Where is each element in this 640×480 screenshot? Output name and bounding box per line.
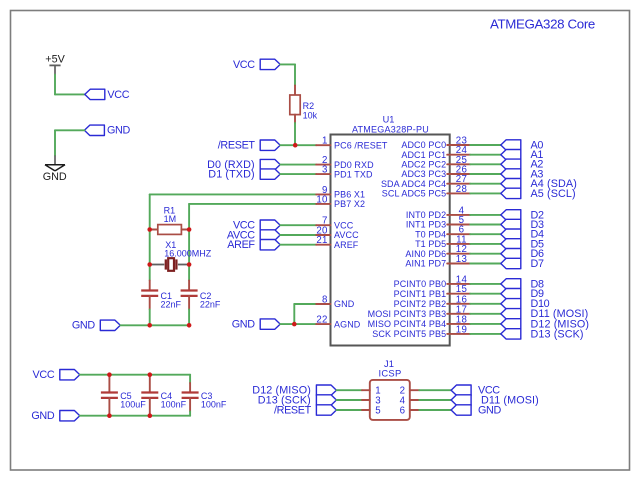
wire (55, 129, 84, 131)
global label A4 (SDA) (501, 179, 521, 189)
wire (470, 283, 501, 285)
svg-text:100nF: 100nF (161, 399, 187, 409)
global label VCC (ICSP) (451, 385, 471, 395)
U1 pin 15 PCINT1 PB1 (394, 284, 471, 299)
wire (419, 389, 451, 391)
global label VCC (U1 power) (260, 220, 280, 230)
svg-text:AVCC: AVCC (334, 230, 359, 240)
resistor R2 (290, 85, 300, 123)
J1 pin 5 (362, 405, 381, 416)
U1 pin 1 PC6 /RESET (316, 136, 388, 151)
wire (55, 93, 85, 95)
global label GND (ICSP) (451, 405, 471, 415)
svg-text:/RESET: /RESET (218, 140, 256, 152)
global label D11 (MOSI) (501, 309, 521, 319)
global label D6 (501, 249, 521, 259)
wire (470, 323, 501, 325)
junction C1 bottom (147, 323, 152, 328)
svg-text:PB7 X2: PB7 X2 (334, 199, 365, 209)
svg-text:22: 22 (316, 315, 327, 326)
svg-text:D7: D7 (531, 258, 544, 270)
U1 pin 18 MISO PCINT4 PB4 (368, 314, 471, 329)
wire crystal ground rail (120, 324, 189, 326)
U1 pin 23 ADC0 PC0 (401, 136, 470, 151)
svg-text:U1: U1 (383, 114, 395, 124)
global label D13 (SCK) (ICSP) (316, 395, 336, 405)
global label D13 (SCK) (501, 329, 521, 339)
svg-text:GND: GND (72, 320, 95, 332)
junction C5 bottom (107, 413, 112, 418)
wire (54, 75, 56, 95)
U1 pin 10 PB7 X2 (316, 194, 365, 209)
wire (54, 130, 56, 155)
J1 pin 4 (400, 395, 420, 406)
U1 pin 4 INT0 PD2 (406, 205, 470, 220)
junction C4 top (148, 372, 153, 377)
svg-text:13: 13 (456, 254, 467, 265)
svg-text:AREF: AREF (227, 239, 255, 251)
global label GND (U1 ground) (260, 319, 280, 329)
svg-text:ICSP: ICSP (378, 368, 401, 379)
wire (419, 399, 451, 401)
junction reset node (293, 143, 298, 148)
U1 pin 21 AREF (316, 235, 359, 250)
global label D12 (MISO) (501, 319, 521, 329)
global label A1 (501, 150, 521, 160)
junction X1 right (187, 262, 192, 267)
global label D4 (501, 229, 521, 239)
svg-text:INT0 PD2: INT0 PD2 (406, 210, 446, 220)
wire VCC rail (80, 374, 190, 376)
global label A5 (SCL) (501, 188, 521, 198)
svg-text:A5 (SCL): A5 (SCL) (531, 188, 576, 200)
U1 pin 24 ADC1 PC1 (401, 145, 470, 160)
svg-text:PB6 X1: PB6 X1 (334, 190, 365, 200)
wire GND riser (293, 304, 295, 324)
capacitor C1 (149, 280, 151, 290)
capacitor C5 (108, 375, 110, 393)
wire (294, 64, 296, 85)
junction C4 bottom (148, 413, 153, 418)
power symbol +5V (45, 54, 65, 75)
svg-text:GND: GND (478, 404, 501, 416)
wire (470, 183, 501, 185)
wire (470, 154, 501, 156)
svg-text:21: 21 (316, 235, 327, 246)
junction R1 right (187, 227, 192, 232)
svg-text:3: 3 (322, 165, 328, 176)
svg-text:ADC3 PC3: ADC3 PC3 (401, 169, 446, 179)
U1 pin 2 PD0 RXD (316, 155, 374, 170)
U1 pin 25 ADC2 PC2 (401, 155, 470, 170)
svg-text:VCC: VCC (33, 369, 55, 381)
global label AREF (260, 240, 280, 250)
svg-text:SCK PCINT5 PB5: SCK PCINT5 PB5 (372, 329, 446, 339)
wire (470, 263, 501, 265)
U1 pin 27 SDA ADC4 PC4 (381, 174, 470, 189)
wire (470, 243, 501, 245)
global label D10 (501, 299, 521, 309)
global label D2 (501, 210, 521, 220)
svg-text:+5V: +5V (45, 54, 65, 66)
wire (280, 173, 316, 175)
capacitor C4 (149, 375, 151, 393)
wire (470, 163, 501, 165)
svg-text:GND: GND (31, 410, 54, 422)
svg-text:100uF: 100uF (120, 399, 146, 409)
global label D9 (501, 289, 521, 299)
wire XTAL2 vertical (188, 204, 190, 281)
wire (280, 63, 295, 65)
wire (470, 293, 501, 295)
global label D1 (TXD) (260, 169, 280, 179)
U1 pin 22 AGND (316, 315, 361, 330)
U1 pin 14 PCINT0 PB0 (394, 274, 471, 289)
svg-text:SDA ADC4 PC4: SDA ADC4 PC4 (381, 179, 446, 189)
U1 pin 6 T0 PD4 (415, 225, 470, 240)
U1 pin 5 INT1 PD3 (406, 215, 470, 230)
IC U1 ATMEGA328P-PU body (331, 135, 450, 346)
svg-text:SCL ADC5 PC5: SCL ADC5 PC5 (382, 189, 446, 199)
wire (470, 144, 501, 146)
svg-text:ATMEGA328 Core: ATMEGA328 Core (490, 17, 595, 32)
svg-text:T0 PD4: T0 PD4 (415, 229, 446, 239)
U1 pin 11 T1 PD5 (415, 234, 470, 249)
global label D5 (501, 239, 521, 249)
global label D8 (501, 279, 521, 289)
svg-text:/RESET: /RESET (274, 404, 312, 416)
svg-text:VCC: VCC (233, 59, 255, 71)
wire (294, 123, 296, 145)
global label A2 (501, 159, 521, 169)
global label GND (decoupling) (60, 411, 80, 421)
U1 pin 20 AVCC (316, 226, 359, 241)
U1 pin 17 MOSI PCINT3 PB3 (368, 304, 471, 319)
ground symbol GND (43, 156, 67, 184)
svg-text:5: 5 (375, 405, 381, 416)
svg-text:16.000MHZ: 16.000MHZ (164, 249, 212, 259)
svg-text:GND: GND (334, 299, 355, 309)
wire (470, 224, 501, 226)
svg-text:10: 10 (316, 194, 328, 205)
global label D0 (RXD) (260, 159, 280, 169)
wire XTAL2 horizontal (189, 203, 316, 205)
wire (280, 323, 316, 325)
U1 pin 28 SCL ADC5 PC5 (382, 184, 470, 199)
svg-text:1: 1 (322, 136, 328, 147)
wire (419, 409, 451, 411)
global label VCC (decoupling) (60, 370, 80, 380)
svg-text:22nF: 22nF (200, 300, 221, 310)
svg-text:AREF: AREF (334, 240, 359, 250)
U1 pin 3 PD1 TXD (316, 165, 373, 180)
wire (280, 144, 316, 146)
global label D12 (MISO) (ICSP) (316, 385, 336, 395)
svg-text:ATMEGA328P-PU: ATMEGA328P-PU (352, 125, 429, 135)
svg-text:GND: GND (232, 319, 255, 331)
wire (336, 389, 362, 391)
junction R1 left (147, 227, 152, 232)
U1 pin 7 VCC (316, 216, 354, 231)
wire (470, 333, 501, 335)
wire (470, 303, 501, 305)
global label GND (crystal) (100, 320, 120, 330)
U1 pin 13 AIN1 PD7 (405, 254, 470, 269)
svg-text:T1 PD5: T1 PD5 (415, 239, 446, 249)
svg-text:ADC1 PC1: ADC1 PC1 (401, 150, 446, 160)
global label VCC (reset pull-up) (260, 59, 280, 69)
global label A3 (501, 169, 521, 179)
svg-text:AIN1 PD7: AIN1 PD7 (405, 259, 446, 269)
svg-text:INT1 PD3: INT1 PD3 (406, 220, 446, 230)
svg-text:GND: GND (107, 125, 130, 137)
wire (280, 224, 316, 226)
svg-text:MOSI PCINT3 PB3: MOSI PCINT3 PB3 (368, 309, 447, 319)
J1 pin 1 (362, 386, 381, 397)
global label D7 (501, 258, 521, 268)
J1 pin 3 (362, 395, 381, 406)
junction C2 bottom (187, 323, 192, 328)
svg-text:PD0 RXD: PD0 RXD (334, 160, 374, 170)
wire (280, 244, 316, 246)
svg-text:D13 (SCK): D13 (SCK) (531, 328, 584, 340)
wire (470, 313, 501, 315)
global label GND (84, 125, 104, 135)
U1 pin 16 PCINT2 PB2 (394, 294, 471, 309)
global label /RESET (ICSP) (316, 405, 336, 415)
svg-text:28: 28 (456, 184, 467, 195)
global label A0 (501, 140, 521, 150)
wire XTAL1 vertical (149, 194, 151, 280)
wire (336, 409, 362, 411)
svg-text:VCC: VCC (334, 220, 354, 230)
junction U1 ground (292, 322, 297, 327)
svg-text:6: 6 (400, 405, 406, 416)
svg-text:D1 (TXD): D1 (TXD) (208, 169, 254, 181)
J1 pin 6 (400, 405, 420, 416)
global label VCC (85, 89, 105, 99)
U1 pin 12 AIN0 PD6 (405, 244, 470, 259)
svg-text:8: 8 (322, 295, 328, 306)
svg-text:ADC0 PC0: ADC0 PC0 (401, 140, 446, 150)
wire (470, 253, 501, 255)
connector J1 ICSP body (370, 380, 410, 420)
global label AVCC (260, 230, 280, 240)
svg-text:VCC: VCC (107, 89, 129, 101)
global label D11 (MOSI) (ICSP) (451, 395, 471, 405)
wire (280, 234, 316, 236)
svg-text:PCINT1 PB1: PCINT1 PB1 (394, 289, 447, 299)
junction C5 top (107, 372, 112, 377)
svg-text:ADC2 PC2: ADC2 PC2 (401, 160, 446, 170)
global label D3 (501, 219, 521, 229)
svg-text:PC6 /RESET: PC6 /RESET (334, 140, 388, 150)
capacitor C3 (189, 375, 191, 383)
wire (280, 164, 316, 166)
resistor R1 (150, 225, 189, 235)
J1 pin 2 (400, 386, 420, 397)
svg-text:GND: GND (43, 171, 67, 183)
svg-text:PCINT2 PB2: PCINT2 PB2 (394, 299, 447, 309)
U1 pin 19 SCK PCINT5 PB5 (372, 324, 470, 339)
svg-text:MISO PCINT4 PB4: MISO PCINT4 PB4 (368, 319, 447, 329)
wire (470, 192, 501, 194)
svg-text:PCINT0 PB0: PCINT0 PB0 (394, 279, 447, 289)
junction X1 left (147, 262, 152, 267)
U1 pin 8 GND (316, 295, 354, 310)
wire (470, 214, 501, 216)
svg-text:19: 19 (456, 324, 467, 335)
capacitor C2 (188, 280, 190, 290)
svg-text:22nF: 22nF (161, 300, 182, 310)
U1 pin 9 PB6 X1 (316, 185, 365, 200)
U1 pin 26 ADC3 PC3 (401, 165, 470, 180)
wire (470, 233, 501, 235)
svg-text:PD1 TXD: PD1 TXD (334, 169, 373, 179)
svg-text:AGND: AGND (334, 319, 361, 329)
svg-text:AIN0 PD6: AIN0 PD6 (405, 249, 446, 259)
svg-text:10k: 10k (303, 111, 318, 121)
wire (470, 173, 501, 175)
wire XTAL1 horizontal (150, 193, 317, 195)
svg-text:1M: 1M (164, 214, 177, 224)
wire (336, 399, 362, 401)
crystal X1 (150, 258, 189, 271)
wire GND rail (80, 415, 190, 417)
svg-text:100nF: 100nF (201, 399, 227, 409)
global label /RESET (260, 140, 280, 150)
wire to pin 8 (294, 303, 316, 305)
